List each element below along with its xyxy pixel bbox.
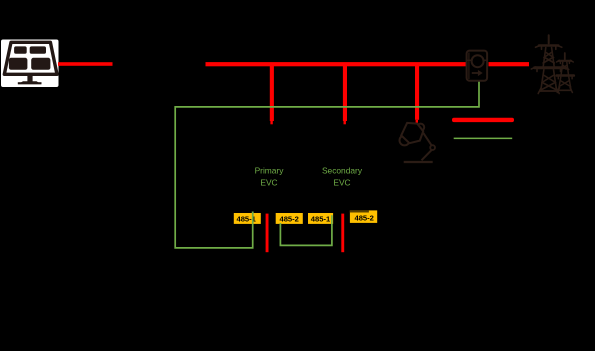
485-1 module box 1 (234, 212, 261, 224)
transmission tower T2 (small) (557, 53, 574, 93)
solar PV array icon (1, 40, 59, 88)
svg-text:EVC: EVC (333, 178, 350, 188)
wire from meter to grid (red) (489, 62, 530, 66)
legend green line (454, 138, 513, 140)
branch drop 1 (red) (270, 64, 274, 124)
label Primary EVC (255, 166, 285, 188)
svg-text:Primary: Primary (255, 166, 285, 176)
svg-text:485-1: 485-1 (236, 214, 256, 223)
energy meter M1 (467, 51, 488, 81)
feeder bar 2 (red) (341, 214, 344, 253)
485-1 module box 3 (308, 213, 333, 224)
svg-text:Secondary: Secondary (322, 166, 363, 176)
branch drop 2 (red) (343, 64, 347, 124)
branch drop 3 (red) (415, 64, 419, 123)
RS-485 comm wire from meter to 485-1 module (green) (175, 82, 479, 248)
transmission tower T1 (large) (531, 35, 566, 93)
main AC bus (red) (206, 62, 467, 66)
svg-text:485-2: 485-2 (279, 214, 298, 223)
monitoring lamp icon (400, 123, 436, 162)
feeder bar 1 (red) (266, 214, 269, 253)
svg-text:485-1: 485-1 (311, 214, 331, 223)
legend red line (452, 118, 514, 122)
label Secondary EVC (322, 166, 363, 188)
RS-485 comm wire between 485-2 and 485-1 modules (green) (280, 215, 332, 245)
svg-text:485-2: 485-2 (354, 214, 373, 223)
485-2 module box 4 (350, 210, 377, 223)
485-2 module box 2 (276, 213, 303, 224)
svg-text:EVC: EVC (260, 178, 277, 188)
wire from PV to inverter (red) (58, 62, 113, 66)
